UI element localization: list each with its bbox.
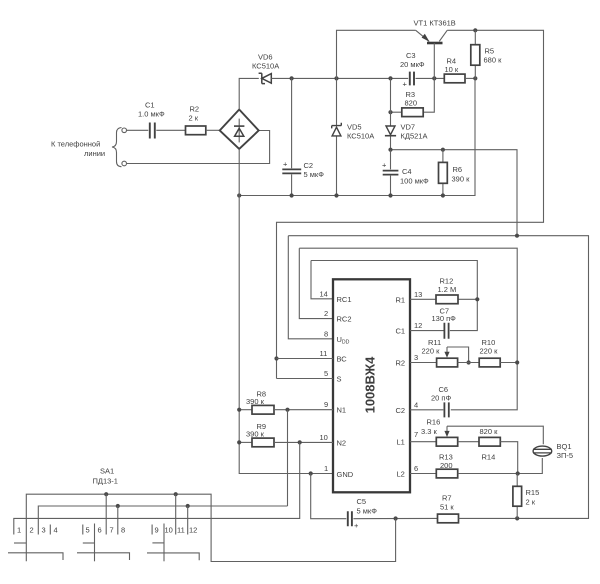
resistor R5 bbox=[471, 30, 502, 78]
svg-text:1.2 М: 1.2 М bbox=[438, 285, 457, 294]
svg-text:VD6: VD6 bbox=[258, 53, 273, 62]
wire: pin 11 BC stub bbox=[277, 358, 334, 360]
switch SA1 section 1 lever bbox=[8, 543, 63, 560]
wire: pin 7 to R16 bbox=[410, 441, 436, 443]
junction: R5 top on collector rail bbox=[473, 28, 477, 32]
wire: UDD wire down to pin 8 bbox=[288, 236, 333, 339]
capacitor C6 bbox=[410, 385, 451, 417]
svg-text:10 к: 10 к bbox=[445, 65, 459, 74]
wire: R10 right to column bbox=[500, 362, 517, 364]
svg-text:C2: C2 bbox=[396, 406, 406, 415]
resistor R10 bbox=[479, 338, 500, 367]
wire: UDD net horizontal and right edge drop bbox=[288, 236, 588, 519]
wire: SA1 rail 1 bbox=[26, 494, 395, 561]
switch SA1 section 3 contacts bbox=[152, 494, 197, 534]
wire: SA1 rail 2 bbox=[38, 506, 287, 535]
svg-text:5: 5 bbox=[324, 369, 328, 378]
junction: C2 top bbox=[290, 76, 294, 80]
wire: bottom terminal to bridge right vertex bbox=[127, 131, 270, 164]
svg-text:100 мкФ: 100 мкФ bbox=[400, 177, 429, 186]
junction: rail2 / contact 11-12 bbox=[186, 504, 190, 508]
svg-text:820: 820 bbox=[405, 99, 418, 108]
svg-text:680 к: 680 к bbox=[484, 56, 503, 65]
svg-text:2: 2 bbox=[30, 526, 34, 535]
svg-text:3: 3 bbox=[42, 526, 46, 535]
wire: bridge bottom down the left side to GND pin bbox=[239, 149, 333, 474]
wire: R9 to pin 10 bbox=[274, 441, 333, 443]
svg-text:3: 3 bbox=[414, 353, 418, 362]
junction: R8 left bbox=[237, 408, 241, 412]
resistor R4 bbox=[444, 57, 465, 83]
resistor R6 bbox=[439, 150, 471, 196]
svg-text:R1: R1 bbox=[396, 295, 406, 304]
resistor R8 bbox=[246, 390, 274, 415]
svg-text:2 к: 2 к bbox=[526, 498, 536, 507]
capacitor C7 bbox=[410, 307, 456, 339]
wire: bridge top vertex up and right to VD6 bbox=[239, 78, 259, 109]
svg-text:КС510А: КС510А bbox=[252, 62, 279, 71]
junction: BC tap on collector column bbox=[274, 356, 278, 360]
svg-text:5: 5 bbox=[86, 526, 90, 535]
piezo BQ1 bbox=[533, 442, 573, 460]
svg-text:51 к: 51 к bbox=[440, 503, 454, 512]
svg-text:12: 12 bbox=[414, 321, 422, 330]
junction: VT1 base node bbox=[432, 76, 436, 80]
svg-text:1: 1 bbox=[17, 526, 21, 535]
svg-text:SA1: SA1 bbox=[100, 467, 114, 476]
svg-text:VT1 КТ361В: VT1 КТ361В bbox=[414, 19, 456, 28]
junction: rail1 / contact 10-11 bbox=[174, 492, 178, 496]
svg-text:К телефонной: К телефонной bbox=[51, 140, 100, 149]
svg-text:C1: C1 bbox=[145, 101, 155, 110]
wire: R2 to bridge bbox=[206, 129, 220, 131]
svg-text:RC2: RC2 bbox=[337, 315, 352, 324]
wire: RC1 wire down to pin 14 bbox=[311, 261, 333, 299]
switch SA1 section 1 contacts bbox=[17, 525, 58, 535]
svg-text:R2: R2 bbox=[190, 105, 200, 114]
svg-text:+: + bbox=[403, 80, 408, 89]
svg-text:2: 2 bbox=[324, 309, 328, 318]
svg-text:R14: R14 bbox=[482, 453, 496, 462]
svg-text:1: 1 bbox=[324, 464, 328, 473]
svg-text:9: 9 bbox=[155, 526, 159, 535]
svg-text:R5: R5 bbox=[485, 47, 495, 56]
svg-text:N2: N2 bbox=[337, 438, 347, 447]
switch SA1 label bbox=[93, 467, 118, 486]
svg-text:BQ1: BQ1 bbox=[557, 442, 572, 451]
wire: top terminal to C1 bbox=[127, 129, 149, 131]
capacitor C2 bbox=[282, 78, 324, 195]
svg-text:12: 12 bbox=[189, 526, 197, 535]
junction: C2 bottom bbox=[290, 193, 294, 197]
junction: R3 left on VD7 column bbox=[388, 110, 392, 114]
junction: R11 wiper tie bbox=[467, 360, 471, 364]
svg-text:GND: GND bbox=[337, 470, 354, 479]
wire: pin 3 to R11 bbox=[410, 362, 437, 364]
junction: rail2 / contact 7-8 bbox=[116, 504, 120, 508]
junction: R12 right / C7 column bbox=[475, 297, 479, 301]
svg-text:C2: C2 bbox=[304, 161, 314, 170]
svg-text:7: 7 bbox=[414, 430, 418, 439]
svg-text:R15: R15 bbox=[526, 488, 540, 497]
wire: N1 junction down to switch rail 2 bbox=[287, 410, 289, 506]
svg-text:6: 6 bbox=[414, 464, 418, 473]
junction: R10 right on RC2 column bbox=[515, 360, 519, 364]
wire: N2 junction down to switch rail 3 bbox=[14, 442, 300, 534]
svg-text:8: 8 bbox=[121, 526, 125, 535]
wire: GND junction down to C5 bbox=[311, 474, 347, 519]
wire: R13 to BQ1 bottom bbox=[458, 458, 543, 474]
switch SA1 section 2 contacts bbox=[83, 494, 125, 534]
svg-text:RC1: RC1 bbox=[337, 295, 352, 304]
resistor R9 bbox=[246, 422, 274, 447]
svg-text:ЗП-5: ЗП-5 bbox=[557, 451, 574, 460]
terminal X1 (top) bbox=[122, 128, 127, 133]
svg-text:5 мкФ: 5 мкФ bbox=[304, 170, 325, 179]
svg-text:10: 10 bbox=[165, 526, 173, 535]
svg-text:КС510А: КС510А bbox=[347, 132, 374, 141]
junction: C5 / R7 / bottom bus bbox=[394, 516, 398, 520]
svg-text:VD5: VD5 bbox=[347, 123, 362, 132]
wire: RC2 wire down to pin 2 bbox=[299, 248, 333, 318]
junction: rail1 / contact 6-7 bbox=[104, 492, 108, 496]
op IC DD1 1008VZh4 bbox=[333, 279, 410, 492]
svg-text:1.0 мкФ: 1.0 мкФ bbox=[138, 110, 165, 119]
svg-text:C5: C5 bbox=[357, 497, 367, 506]
svg-text:5 мкФ: 5 мкФ bbox=[357, 507, 378, 516]
svg-text:390 к: 390 к bbox=[246, 430, 265, 439]
svg-text:R6: R6 bbox=[453, 165, 463, 174]
potentiometer R16 bbox=[421, 418, 543, 447]
switch SA1 section 3 lever bbox=[147, 524, 199, 562]
junction: N2 / switch rail 3 branch bbox=[298, 440, 302, 444]
svg-text:S: S bbox=[337, 375, 342, 384]
resistor R12 bbox=[410, 277, 477, 304]
capacitor C5 bbox=[348, 497, 377, 530]
junction: VD7 column top bbox=[388, 76, 392, 80]
svg-text:2 к: 2 к bbox=[189, 114, 199, 123]
junction: VD7 net on UDD wire bbox=[515, 234, 519, 238]
svg-text:14: 14 bbox=[320, 289, 328, 298]
svg-text:C4: C4 bbox=[402, 167, 412, 176]
svg-text:+: + bbox=[354, 521, 359, 530]
svg-text:20 пФ: 20 пФ bbox=[431, 394, 451, 403]
svg-text:R2: R2 bbox=[396, 359, 406, 368]
svg-text:820 к: 820 к bbox=[480, 427, 499, 436]
wire: emitter rail bbox=[337, 30, 416, 78]
wire: pin 5 S stub bbox=[277, 378, 334, 380]
wire: C5 to R7 junction bbox=[353, 517, 437, 519]
telephone line brace bbox=[112, 128, 122, 167]
capacitor C4 bbox=[382, 150, 429, 196]
wire: ground rail bbox=[239, 78, 475, 195]
junction: R6 top bbox=[441, 148, 445, 152]
wire: R14 right down to L2 row bbox=[500, 442, 517, 474]
wire: RC2 net loop to C6/R10 column bbox=[299, 248, 517, 410]
diode VD6 (zener) bbox=[252, 53, 279, 84]
svg-text:1008ВЖ4: 1008ВЖ4 bbox=[363, 356, 378, 414]
svg-text:130 пФ: 130 пФ bbox=[432, 314, 457, 323]
svg-text:11: 11 bbox=[177, 526, 185, 535]
svg-text:R7: R7 bbox=[442, 494, 452, 503]
svg-text:3.3 к: 3.3 к bbox=[421, 427, 438, 436]
transistor VT1 KT361B bbox=[414, 19, 456, 79]
svg-text:20 мкФ: 20 мкФ bbox=[400, 60, 425, 69]
svg-text:ВС: ВС bbox=[337, 355, 348, 364]
svg-text:220 к: 220 к bbox=[422, 347, 441, 356]
switch SA1 section 2 lever bbox=[77, 524, 130, 562]
junction: L2 / R14 / R15 node bbox=[516, 471, 520, 475]
svg-text:C1: C1 bbox=[396, 327, 406, 336]
wire: R8 to pin 9 bbox=[274, 409, 333, 411]
wire: VD6 to C3 with taps bbox=[271, 77, 408, 79]
svg-text:N1: N1 bbox=[337, 406, 347, 415]
svg-text:6: 6 bbox=[98, 526, 102, 535]
svg-text:7: 7 bbox=[110, 526, 114, 535]
wire: N1 row left bbox=[239, 409, 252, 411]
junction: GND pin / C5 branch bbox=[309, 471, 313, 475]
resistor R3 bbox=[391, 78, 435, 116]
svg-text:L2: L2 bbox=[397, 470, 405, 479]
junction: N1 / UDD branch bbox=[285, 408, 289, 412]
junction: R4/R5/GND column bbox=[473, 76, 477, 80]
junction: C4 bottom bbox=[388, 193, 392, 197]
junction: VD5 / emitter rail bbox=[334, 76, 338, 80]
wire: N2 row left bbox=[239, 441, 252, 443]
terminal X2 (bottom) bbox=[122, 161, 127, 166]
svg-text:13: 13 bbox=[414, 290, 422, 299]
svg-text:8: 8 bbox=[324, 329, 328, 338]
wire: pin 6 to R13 bbox=[410, 473, 436, 475]
svg-text:11: 11 bbox=[320, 349, 328, 358]
svg-text:линии: линии bbox=[84, 149, 105, 158]
junction: VD5 bottom bbox=[334, 193, 338, 197]
wire: C3 to base junction bbox=[416, 77, 445, 79]
svg-text:9: 9 bbox=[324, 400, 328, 409]
resistor R2 bbox=[186, 105, 206, 135]
zener VD5 bbox=[332, 78, 375, 195]
svg-text:КД521А: КД521А bbox=[401, 132, 428, 141]
svg-text:390 к: 390 к bbox=[246, 397, 265, 406]
diode VD7 bbox=[385, 78, 428, 149]
wire: RC1 net loop to R12/C7 column bbox=[311, 261, 477, 331]
wire: R11 to R10 bbox=[458, 362, 480, 364]
svg-text:R16: R16 bbox=[427, 418, 441, 427]
wire: R4 right to R5 column junction bbox=[465, 77, 475, 79]
wire: C1 to R2 bbox=[156, 129, 185, 131]
wire: VD7 to C4 and right to UDD drop bbox=[391, 150, 518, 236]
svg-text:220 к: 220 к bbox=[480, 347, 499, 356]
wire: R16 to R14 bbox=[458, 441, 479, 443]
junction: R15 bottom bbox=[515, 516, 519, 520]
capacitor C3 bbox=[400, 51, 425, 89]
resistor R15 bbox=[513, 474, 539, 519]
svg-text:ПД13-1: ПД13-1 bbox=[93, 477, 118, 486]
svg-text:+: + bbox=[382, 161, 387, 170]
resistor R7 bbox=[438, 494, 459, 523]
resistor R13 bbox=[436, 453, 457, 478]
svg-text:C3: C3 bbox=[406, 51, 416, 60]
svg-text:200: 200 bbox=[440, 461, 453, 470]
junction: bridge bottom on ground rail bbox=[237, 193, 241, 197]
diode bridge VD1-VD4 bbox=[220, 110, 259, 150]
svg-text:+: + bbox=[283, 160, 288, 169]
svg-text:390 к: 390 к bbox=[452, 175, 471, 184]
wire: collector rail to right edge drop bbox=[277, 30, 544, 378]
resistor R14 bbox=[479, 427, 500, 462]
potentiometer R11 bbox=[422, 338, 469, 367]
svg-text:10: 10 bbox=[320, 433, 328, 442]
junction: VD7/C4 node bbox=[388, 148, 392, 152]
wire: R7 right to R15 bottom corner bbox=[459, 517, 518, 519]
junction: R9 left bbox=[237, 440, 241, 444]
svg-text:VD7: VD7 bbox=[401, 123, 416, 132]
svg-text:4: 4 bbox=[414, 400, 418, 409]
svg-text:L1: L1 bbox=[397, 438, 405, 447]
junction: R6 bottom bbox=[441, 193, 445, 197]
node: telephone line label bbox=[51, 140, 105, 159]
capacitor C1 bbox=[138, 101, 165, 139]
svg-text:4: 4 bbox=[54, 526, 58, 535]
